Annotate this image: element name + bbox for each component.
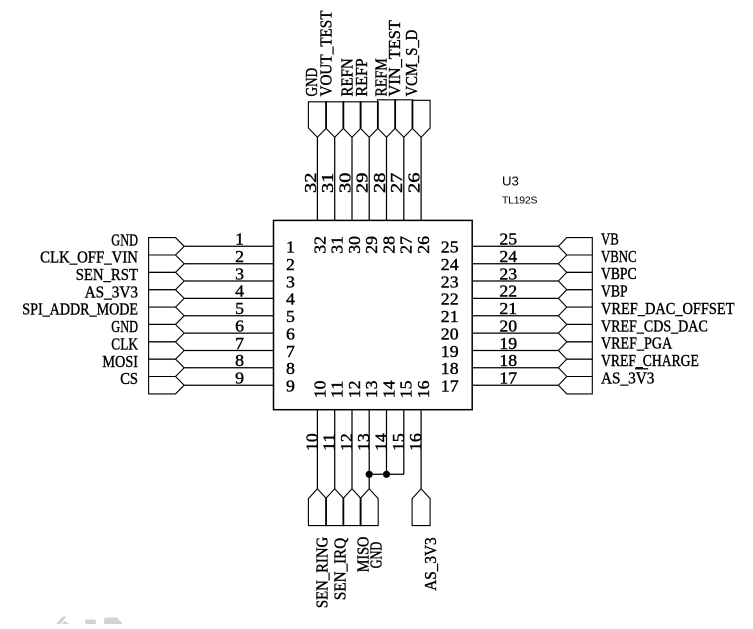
svg-text:16: 16 [414, 381, 433, 399]
svg-text:23: 23 [441, 272, 459, 291]
svg-text:VOUT_TEST: VOUT_TEST [316, 10, 335, 97]
svg-text:11: 11 [320, 433, 339, 451]
svg-text:CLK: CLK [111, 335, 138, 354]
svg-text:6: 6 [286, 324, 295, 343]
svg-text:REFP: REFP [352, 58, 371, 96]
svg-text:29: 29 [362, 236, 381, 254]
svg-text:25: 25 [441, 238, 459, 257]
svg-text:CLK_OFF_VIN: CLK_OFF_VIN [40, 248, 138, 267]
svg-text:26: 26 [414, 236, 433, 254]
svg-text:9: 9 [286, 377, 295, 396]
svg-text:13: 13 [362, 381, 381, 399]
svg-text:18: 18 [499, 351, 517, 370]
svg-text:3: 3 [235, 264, 244, 283]
svg-text:30: 30 [345, 236, 364, 254]
svg-text:14: 14 [379, 380, 398, 398]
svg-text:VBNC: VBNC [601, 247, 637, 266]
svg-text:17: 17 [499, 369, 517, 388]
svg-text:23: 23 [499, 264, 517, 283]
svg-text:U3: U3 [502, 174, 519, 189]
svg-text:8: 8 [286, 359, 295, 378]
svg-text:2: 2 [235, 247, 244, 266]
svg-text:5: 5 [286, 307, 295, 326]
svg-text:30: 30 [335, 173, 354, 193]
svg-text:25: 25 [499, 230, 517, 249]
svg-text:7: 7 [235, 334, 244, 353]
svg-text:16: 16 [406, 433, 425, 451]
svg-text:GND: GND [111, 317, 138, 336]
svg-text:1: 1 [235, 230, 244, 249]
svg-text:26: 26 [405, 173, 424, 193]
svg-text:11: 11 [328, 381, 347, 399]
svg-text:22: 22 [441, 290, 459, 309]
svg-text:SEN_RING: SEN_RING [313, 537, 332, 608]
svg-text:12: 12 [337, 433, 356, 451]
svg-text:24: 24 [441, 255, 459, 274]
svg-text:VREF_CHARGE: VREF_CHARGE [601, 351, 699, 370]
svg-text:GND: GND [366, 542, 385, 569]
svg-text:AS_3V3: AS_3V3 [601, 368, 654, 387]
svg-text:VREF_PGA: VREF_PGA [601, 334, 673, 353]
svg-text:21: 21 [499, 299, 517, 318]
svg-text:CS: CS [120, 369, 138, 388]
svg-text:20: 20 [499, 316, 517, 335]
svg-text:17: 17 [441, 377, 459, 396]
svg-text:13: 13 [354, 433, 373, 451]
svg-text:VCM_S_D: VCM_S_D [402, 30, 421, 97]
svg-text:SPI_ADDR_MODE: SPI_ADDR_MODE [22, 300, 138, 319]
svg-text:AS_3V3: AS_3V3 [421, 537, 440, 590]
svg-text:VREF_CDS_DAC: VREF_CDS_DAC [601, 316, 708, 335]
svg-text:3: 3 [286, 272, 295, 291]
svg-text:15: 15 [389, 433, 408, 451]
svg-text:19: 19 [499, 334, 517, 353]
svg-text:2: 2 [286, 255, 295, 274]
svg-text:15: 15 [397, 381, 416, 399]
svg-text:9: 9 [235, 369, 244, 388]
svg-text:5: 5 [235, 299, 244, 318]
svg-text:10: 10 [302, 433, 321, 451]
svg-text:31: 31 [318, 173, 337, 193]
svg-text:SEN_IRQ: SEN_IRQ [331, 538, 350, 600]
svg-text:19: 19 [441, 342, 459, 361]
svg-text:27: 27 [397, 235, 416, 253]
svg-text:31: 31 [328, 236, 347, 254]
svg-text:12: 12 [345, 381, 364, 399]
svg-text:1: 1 [286, 238, 295, 257]
svg-text:32: 32 [301, 173, 320, 193]
svg-text:6: 6 [235, 316, 244, 335]
svg-text:29: 29 [353, 173, 372, 193]
svg-text:27: 27 [387, 172, 406, 193]
svg-text:VBP: VBP [601, 282, 628, 301]
svg-text:GND: GND [111, 230, 138, 249]
svg-text:4: 4 [286, 290, 295, 309]
svg-text:VREF_DAC_OFFSET: VREF_DAC_OFFSET [601, 299, 735, 318]
svg-text:SEN_RST: SEN_RST [76, 265, 139, 284]
svg-text:21: 21 [441, 307, 459, 326]
svg-text:20: 20 [441, 324, 459, 343]
svg-text:VB: VB [601, 230, 619, 249]
svg-text:28: 28 [379, 236, 398, 254]
svg-text:7: 7 [286, 342, 295, 361]
svg-text:24: 24 [499, 247, 517, 266]
svg-text:MOSI: MOSI [102, 352, 138, 371]
svg-text:VBPC: VBPC [601, 264, 637, 283]
svg-text:4: 4 [235, 282, 244, 301]
svg-text:TL192S: TL192S [502, 196, 537, 207]
svg-text:32: 32 [310, 236, 329, 254]
svg-text:10: 10 [310, 381, 329, 399]
svg-text:18: 18 [441, 359, 459, 378]
svg-text:28: 28 [370, 173, 389, 193]
svg-text:AS_3V3: AS_3V3 [85, 282, 138, 301]
svg-text:22: 22 [499, 282, 517, 301]
svg-text:14: 14 [372, 433, 391, 451]
svg-text:8: 8 [235, 351, 244, 370]
